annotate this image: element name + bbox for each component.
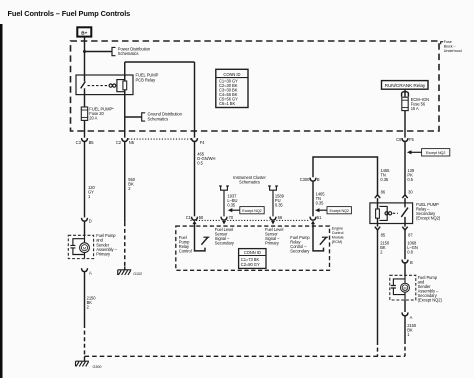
svg-text:C8: C8 [396, 137, 402, 142]
label 139 PK 0.5 [407, 168, 414, 182]
secondary relay dashed link [393, 212, 398, 214]
svg-text:Primary: Primary [96, 252, 111, 257]
svg-text:CONN ID: CONN ID [223, 72, 240, 77]
PCB relay dashed actuator link [88, 85, 109, 87]
connector C8/F5 [402, 138, 408, 141]
connector B secondary [402, 260, 408, 263]
svg-text:Secondary: Secondary [290, 249, 310, 254]
wire 2150 BK 2 left [84, 272, 86, 324]
wire: RUN/CRANK relay to ECM-IGN fuse [404, 89, 406, 97]
svg-text:Primary: Primary [265, 241, 280, 246]
wire 2150 BK 1 [404, 316, 406, 340]
secondary relay armature circles [385, 212, 392, 215]
CONN ID table fuse block [216, 69, 248, 107]
svg-text:G300: G300 [93, 365, 102, 369]
wire W2: coil down to connector C2 [124, 90, 126, 138]
RUN/CRANK relay box [382, 81, 429, 90]
wire 1465 TN horizontal net [313, 157, 378, 195]
connector C2/N5 [122, 138, 128, 141]
svg-text:0.35: 0.35 [380, 177, 389, 182]
wire 1068 L-GN from pin 87 [404, 230, 406, 259]
primary pump internal wiring [73, 235, 85, 258]
svg-text:86: 86 [381, 189, 386, 194]
label 1589 PU 0.35 [275, 194, 285, 208]
svg-text:C3: C3 [76, 140, 82, 145]
except NQ2 callout near F5 [407, 149, 450, 156]
wire 1589 PU to ECM pin 56 [272, 190, 274, 216]
ECM label [332, 227, 344, 244]
secondary relay label [416, 202, 441, 221]
label 120 GY 1 [88, 185, 95, 199]
label 2150 BK 1 [407, 323, 417, 337]
wire W1: fuse to connector C3 [84, 120, 86, 137]
svg-text:B: B [317, 177, 320, 182]
connector D [82, 218, 88, 221]
svg-text:0.35: 0.35 [316, 200, 325, 205]
svg-text:PCB Relay: PCB Relay [136, 78, 157, 83]
ECM connector pin 70 [221, 217, 227, 220]
svg-text:Except NQ2: Except NQ2 [330, 209, 349, 213]
ECM connector pin 56 [270, 217, 276, 220]
primary pump motor M [80, 243, 90, 253]
secondary pump internal wiring [393, 275, 405, 300]
fuel pump and sender assembly secondary dashed box [390, 275, 416, 300]
fuel level sensor signal secondary label [215, 227, 235, 246]
svg-text:Schematics: Schematics [239, 179, 260, 184]
fuel pump primary label [96, 233, 117, 257]
svg-text:B+: B+ [81, 31, 87, 36]
instrument cluster schematics label [233, 175, 266, 185]
svg-text:C2: C2 [116, 140, 122, 145]
fuel pump PCB relay U-box [76, 75, 133, 95]
fuel pump and sender assembly primary dashed box [68, 235, 93, 258]
bottom dashed ground rail [85, 355, 406, 357]
fuse block underhood label [441, 40, 462, 53]
label 2150 BK 2 left [87, 296, 97, 310]
wire dashed 2150 BK 1 to ground rail [404, 340, 406, 356]
wire dashed to G300 [84, 324, 86, 356]
label 1465 TN 0.35 coil side [380, 168, 390, 182]
wire 550 BK dashed section to G102 [124, 222, 126, 266]
PCB relay label [136, 73, 159, 83]
ECM fuel pump relay control driver [193, 221, 210, 251]
svg-text:Secondary: Secondary [215, 241, 235, 246]
wire 550 BK: connector N5 down [124, 142, 126, 223]
svg-text:C6=1 BK: C6=1 BK [219, 101, 235, 106]
scan artifact left edge line [0, 24, 3, 378]
svg-text:0.35: 0.35 [275, 203, 284, 208]
ECM connector pin 51 [310, 217, 316, 220]
svg-text:Fuse: Fuse [444, 40, 452, 44]
RUN/CRANK relay terminal cap [402, 92, 409, 97]
fuel pump fuse label [89, 106, 114, 120]
secondary relay pin 85 [375, 227, 380, 230]
label 2150 BK 2 right [380, 241, 390, 255]
svg-text:Fuel Controls – Fuel Pump Cont: Fuel Controls – Fuel Pump Controls [8, 9, 131, 18]
label 1465 TN 0.35 ECM side [316, 191, 326, 205]
ECM-IGN fuse 56 [402, 97, 408, 110]
fuel level sensor signal primary label [265, 227, 284, 246]
svg-text:B5: B5 [89, 140, 95, 145]
ECM dashed box [176, 226, 330, 270]
svg-text:C300: C300 [300, 177, 310, 182]
svg-text:Schematics: Schematics [118, 51, 139, 56]
junction dot node B+ branch [83, 50, 86, 53]
svg-text:70: 70 [229, 215, 234, 220]
wire W1: B+ feed down to PCB relay [84, 37, 86, 75]
ECM-IGN fuse label [411, 97, 429, 111]
wire W3: control wire down inside fuse block [194, 62, 196, 138]
connector A secondary [402, 312, 408, 315]
label 1937 L-BU 0.35 [227, 194, 237, 208]
svg-text:0.35: 0.35 [227, 203, 236, 208]
dotted connector line N5-F4 [128, 138, 191, 140]
svg-text:51: 51 [317, 215, 322, 220]
fuel pump relay secondary pin 30 [402, 195, 407, 198]
svg-text:20 A: 20 A [89, 116, 97, 121]
secondary relay coil bracket [379, 206, 387, 220]
PCB relay coil [123, 81, 127, 90]
svg-text:(Except NQ2): (Except NQ2) [416, 216, 441, 221]
svg-text:Except NQ2: Except NQ2 [242, 209, 261, 213]
svg-text:50: 50 [199, 215, 204, 220]
wire: horizontal coil control run [125, 61, 195, 63]
wire 120 GY: connector B5 down to pump [84, 142, 86, 218]
wire W2: relay coil top up to horizontal [124, 62, 126, 81]
wire 1465 TN to ECM pin 51 [312, 181, 314, 216]
wire 2150 BK 2 right from pin 85 [377, 230, 379, 341]
connector A primary [82, 268, 88, 271]
connector C300 B [310, 178, 316, 181]
svg-text:0.5: 0.5 [407, 177, 413, 182]
svg-text:B: B [410, 260, 413, 265]
CONN ID table ECM [239, 249, 266, 269]
instrument cluster stub terminal 1937 [219, 186, 229, 190]
ECM connector pin C1 50 [192, 217, 198, 220]
svg-text:N5: N5 [129, 140, 135, 145]
power distribution schematics bracket [112, 46, 151, 56]
fuse block underhood dashed box [71, 41, 440, 131]
svg-text:30: 30 [408, 189, 413, 194]
svg-text:Engine: Engine [332, 227, 343, 231]
label 1068 L-GN 0.8 [407, 241, 418, 255]
svg-text:A: A [89, 271, 92, 276]
svg-text:(Except NQ2): (Except NQ2) [418, 297, 443, 302]
wire: connector D to primary pump [84, 221, 86, 235]
label 465 D-GN/WH 0.5 [197, 151, 215, 165]
svg-text:56: 56 [278, 215, 283, 220]
fuel pump secondary label [418, 275, 443, 303]
ground distribution schematics bracket [142, 112, 183, 122]
connector F4 [192, 138, 198, 141]
svg-text:Except NQ2: Except NQ2 [426, 151, 445, 155]
instrument cluster stub terminal 1589 [268, 186, 278, 190]
fuel pump relay control secondary label [290, 235, 310, 254]
svg-text:CONN ID: CONN ID [244, 250, 261, 255]
B+ power feed box [77, 27, 91, 36]
label 550 BK 2 [128, 177, 135, 191]
primary pump capacitor [70, 245, 75, 248]
svg-text:Module: Module [332, 235, 344, 239]
svg-text:87: 87 [408, 233, 413, 238]
ECM fuel level sensor input secondary [222, 221, 226, 225]
wire W1: relay to fuel pump fuse [84, 95, 86, 107]
svg-text:G102: G102 [133, 272, 142, 276]
wire branch to ground distribution [125, 116, 142, 118]
svg-text:RUN/CRANK Relay: RUN/CRANK Relay [385, 83, 426, 89]
fuel pump relay secondary box [370, 203, 413, 224]
secondary pump motor M [401, 283, 410, 292]
PCB relay switch [81, 75, 86, 95]
svg-text:0.8: 0.8 [407, 250, 413, 255]
svg-text:Underhood: Underhood [444, 49, 462, 53]
ECM fuel level sensor input primary [271, 221, 275, 225]
wire 1937 L-BU to ECM pin 70 [223, 190, 225, 216]
secondary relay pin 87 [402, 227, 407, 230]
fuel pump fuse 20A [81, 107, 87, 120]
dotted ECM connector line [191, 219, 310, 221]
wire 139 PK: connector F5 down to relay pin 30 [404, 142, 406, 195]
secondary pump capacitor [391, 286, 396, 289]
ECM fuel pump relay control label [179, 235, 192, 254]
svg-text:15 A: 15 A [411, 106, 419, 111]
svg-text:F5: F5 [409, 137, 414, 142]
wire dashed pin85 to ground rail [377, 341, 379, 356]
PCB relay coil bracket [117, 80, 125, 92]
svg-text:C2=80 GY: C2=80 GY [241, 262, 260, 267]
svg-text:85: 85 [381, 233, 386, 238]
svg-text:0.5: 0.5 [197, 160, 203, 165]
svg-text:F4: F4 [200, 140, 205, 145]
PCB relay armature circles [109, 84, 116, 87]
wire branch to power distribution [85, 51, 112, 53]
ground G300 [76, 356, 102, 369]
svg-text:M: M [404, 286, 407, 290]
secondary relay switch [401, 198, 408, 227]
ground G102 [118, 266, 142, 276]
ECM fuel pump relay control secondary driver [311, 221, 328, 251]
svg-text:Control: Control [332, 231, 344, 235]
wire 465 D-GN/WH: F4 to ECM pin 50 [194, 142, 196, 217]
except NQ2 callout cluster 1937 [228, 207, 264, 214]
secondary relay coil [377, 198, 379, 209]
except NQ2 callout 1465 [315, 207, 351, 214]
wire: fuse to connector C8 [404, 111, 406, 138]
fuel pump relay secondary pin 86 [375, 195, 380, 198]
svg-text:Block –: Block – [444, 44, 457, 48]
svg-text:Control: Control [179, 249, 192, 254]
svg-text:(ECM): (ECM) [332, 240, 342, 244]
svg-text:A: A [410, 315, 413, 320]
svg-text:C1: C1 [186, 215, 192, 220]
svg-text:D: D [89, 218, 92, 223]
svg-text:M: M [83, 245, 86, 250]
connector C3/B5 [82, 138, 88, 141]
wire to secondary pump [404, 263, 406, 275]
svg-text:Schematics: Schematics [148, 117, 169, 122]
